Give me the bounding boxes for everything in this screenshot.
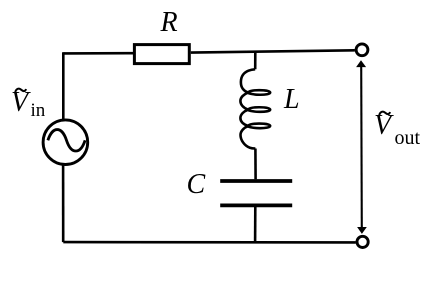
- label Vout subscript out: [395, 128, 421, 148]
- arrow shaft Vout: [360, 65, 363, 230]
- capacitor C top plate: [220, 179, 292, 183]
- label Vout V: [374, 112, 391, 140]
- capacitor C bottom plate: [220, 203, 292, 207]
- label R: [161, 9, 178, 37]
- label L: [284, 86, 300, 114]
- tilde over Vin: [15, 89, 26, 92]
- AC source V1: [43, 120, 88, 165]
- tilde over Vout: [379, 112, 390, 115]
- wire top-left horizontal: [63, 52, 134, 55]
- arrowhead down: [357, 227, 367, 234]
- wire top-right horizontal: [191, 50, 355, 52]
- wire inductor to capacitor: [254, 149, 257, 180]
- label Vin subscript in: [31, 101, 46, 120]
- wire left vertical lower: [62, 164, 65, 242]
- wire left vertical upper: [62, 52, 65, 120]
- wire inductor tap from top rail: [254, 52, 257, 70]
- wire capacitor to bottom rail: [254, 207, 257, 242]
- terminal top: [356, 44, 368, 56]
- label Vin V: [11, 89, 28, 117]
- label C: [187, 171, 206, 199]
- resistor R: [134, 45, 189, 64]
- arrowhead up: [356, 60, 366, 67]
- sine wave inside source: [48, 130, 85, 151]
- inductor L coil: [240, 69, 270, 148]
- terminal bottom: [357, 236, 368, 247]
- wire bottom horizontal: [63, 241, 356, 244]
